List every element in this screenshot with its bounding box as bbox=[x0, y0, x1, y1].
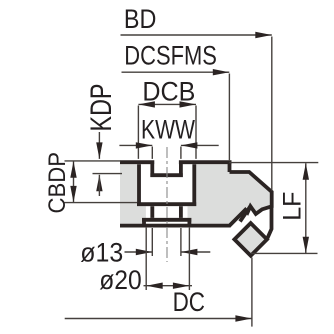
LF extension lines bbox=[229, 163, 318, 254]
flange interior (white) bbox=[146, 222, 188, 224]
svg-text:BD: BD bbox=[124, 4, 156, 34]
svg-text:ø20: ø20 bbox=[99, 265, 142, 295]
diameter 13 dimension bbox=[125, 251, 211, 253]
sliver left of neck (white) bbox=[146, 206, 151, 218]
DCSFMS arrow bbox=[213, 69, 230, 75]
BD extension line bbox=[271, 37, 273, 191]
svg-text:DCSFMS: DCSFMS bbox=[124, 41, 217, 71]
DC extension line bbox=[251, 258, 253, 327]
svg-text:ø13: ø13 bbox=[80, 237, 123, 267]
KDP reference lines bbox=[93, 161, 123, 174]
BD dimension line bbox=[121, 34, 272, 36]
svg-text:KWW: KWW bbox=[141, 115, 195, 145]
DCSFMS dimension line bbox=[122, 71, 230, 73]
centerline bbox=[166, 147, 168, 262]
svg-text:KDP: KDP bbox=[85, 84, 118, 132]
svg-text:DCB: DCB bbox=[142, 76, 195, 106]
svg-text:CBDP: CBDP bbox=[44, 152, 71, 214]
diameter 20 dimension bbox=[144, 285, 193, 287]
KWW dimension line bbox=[119, 144, 218, 146]
svg-text:LF: LF bbox=[278, 192, 306, 221]
KDP leader line and arrows bbox=[98, 132, 100, 159]
KWW arrows bbox=[136, 142, 153, 148]
DCB extension lines bbox=[138, 106, 196, 159]
svg-text:DC: DC bbox=[173, 287, 205, 317]
DCSFMS extension line bbox=[228, 74, 230, 161]
wedge clamp edge (right side of pocket) bbox=[268, 206, 272, 238]
DC arrow bbox=[235, 315, 252, 321]
DC dimension line bbox=[65, 318, 252, 320]
CBDP reference lines bbox=[65, 161, 138, 203]
diameter 20 extension lines bbox=[146, 228, 189, 290]
body outline (thick) bbox=[120, 160, 272, 225]
keyway slot (white) bbox=[150, 150, 183, 173]
BD arrow bbox=[255, 32, 271, 38]
DCB dimension line bbox=[138, 103, 196, 105]
flange / boss (thick) bbox=[142, 220, 191, 226]
cutter body (gray section) bbox=[120, 162, 272, 225]
counterbore walls and floor (thick) bbox=[137, 164, 196, 204]
sliver right of neck (white) bbox=[183, 206, 188, 218]
diameter 13 extension lines bbox=[152, 228, 181, 256]
bore channel below counterbore (white) bbox=[154, 204, 179, 218]
LF dimension line bbox=[305, 163, 307, 253]
bore neck walls (thick) bbox=[152, 206, 181, 218]
pocket middle diagonal bbox=[240, 206, 250, 221]
insert (gray diamond) bbox=[234, 223, 267, 256]
DCB arrows bbox=[138, 101, 155, 107]
KWW extension lines bbox=[152, 147, 181, 159]
counterbore cavity (white) bbox=[141, 164, 192, 202]
LF arrows bbox=[303, 163, 309, 180]
CBDP dimension line and arrows bbox=[73, 161, 75, 202]
